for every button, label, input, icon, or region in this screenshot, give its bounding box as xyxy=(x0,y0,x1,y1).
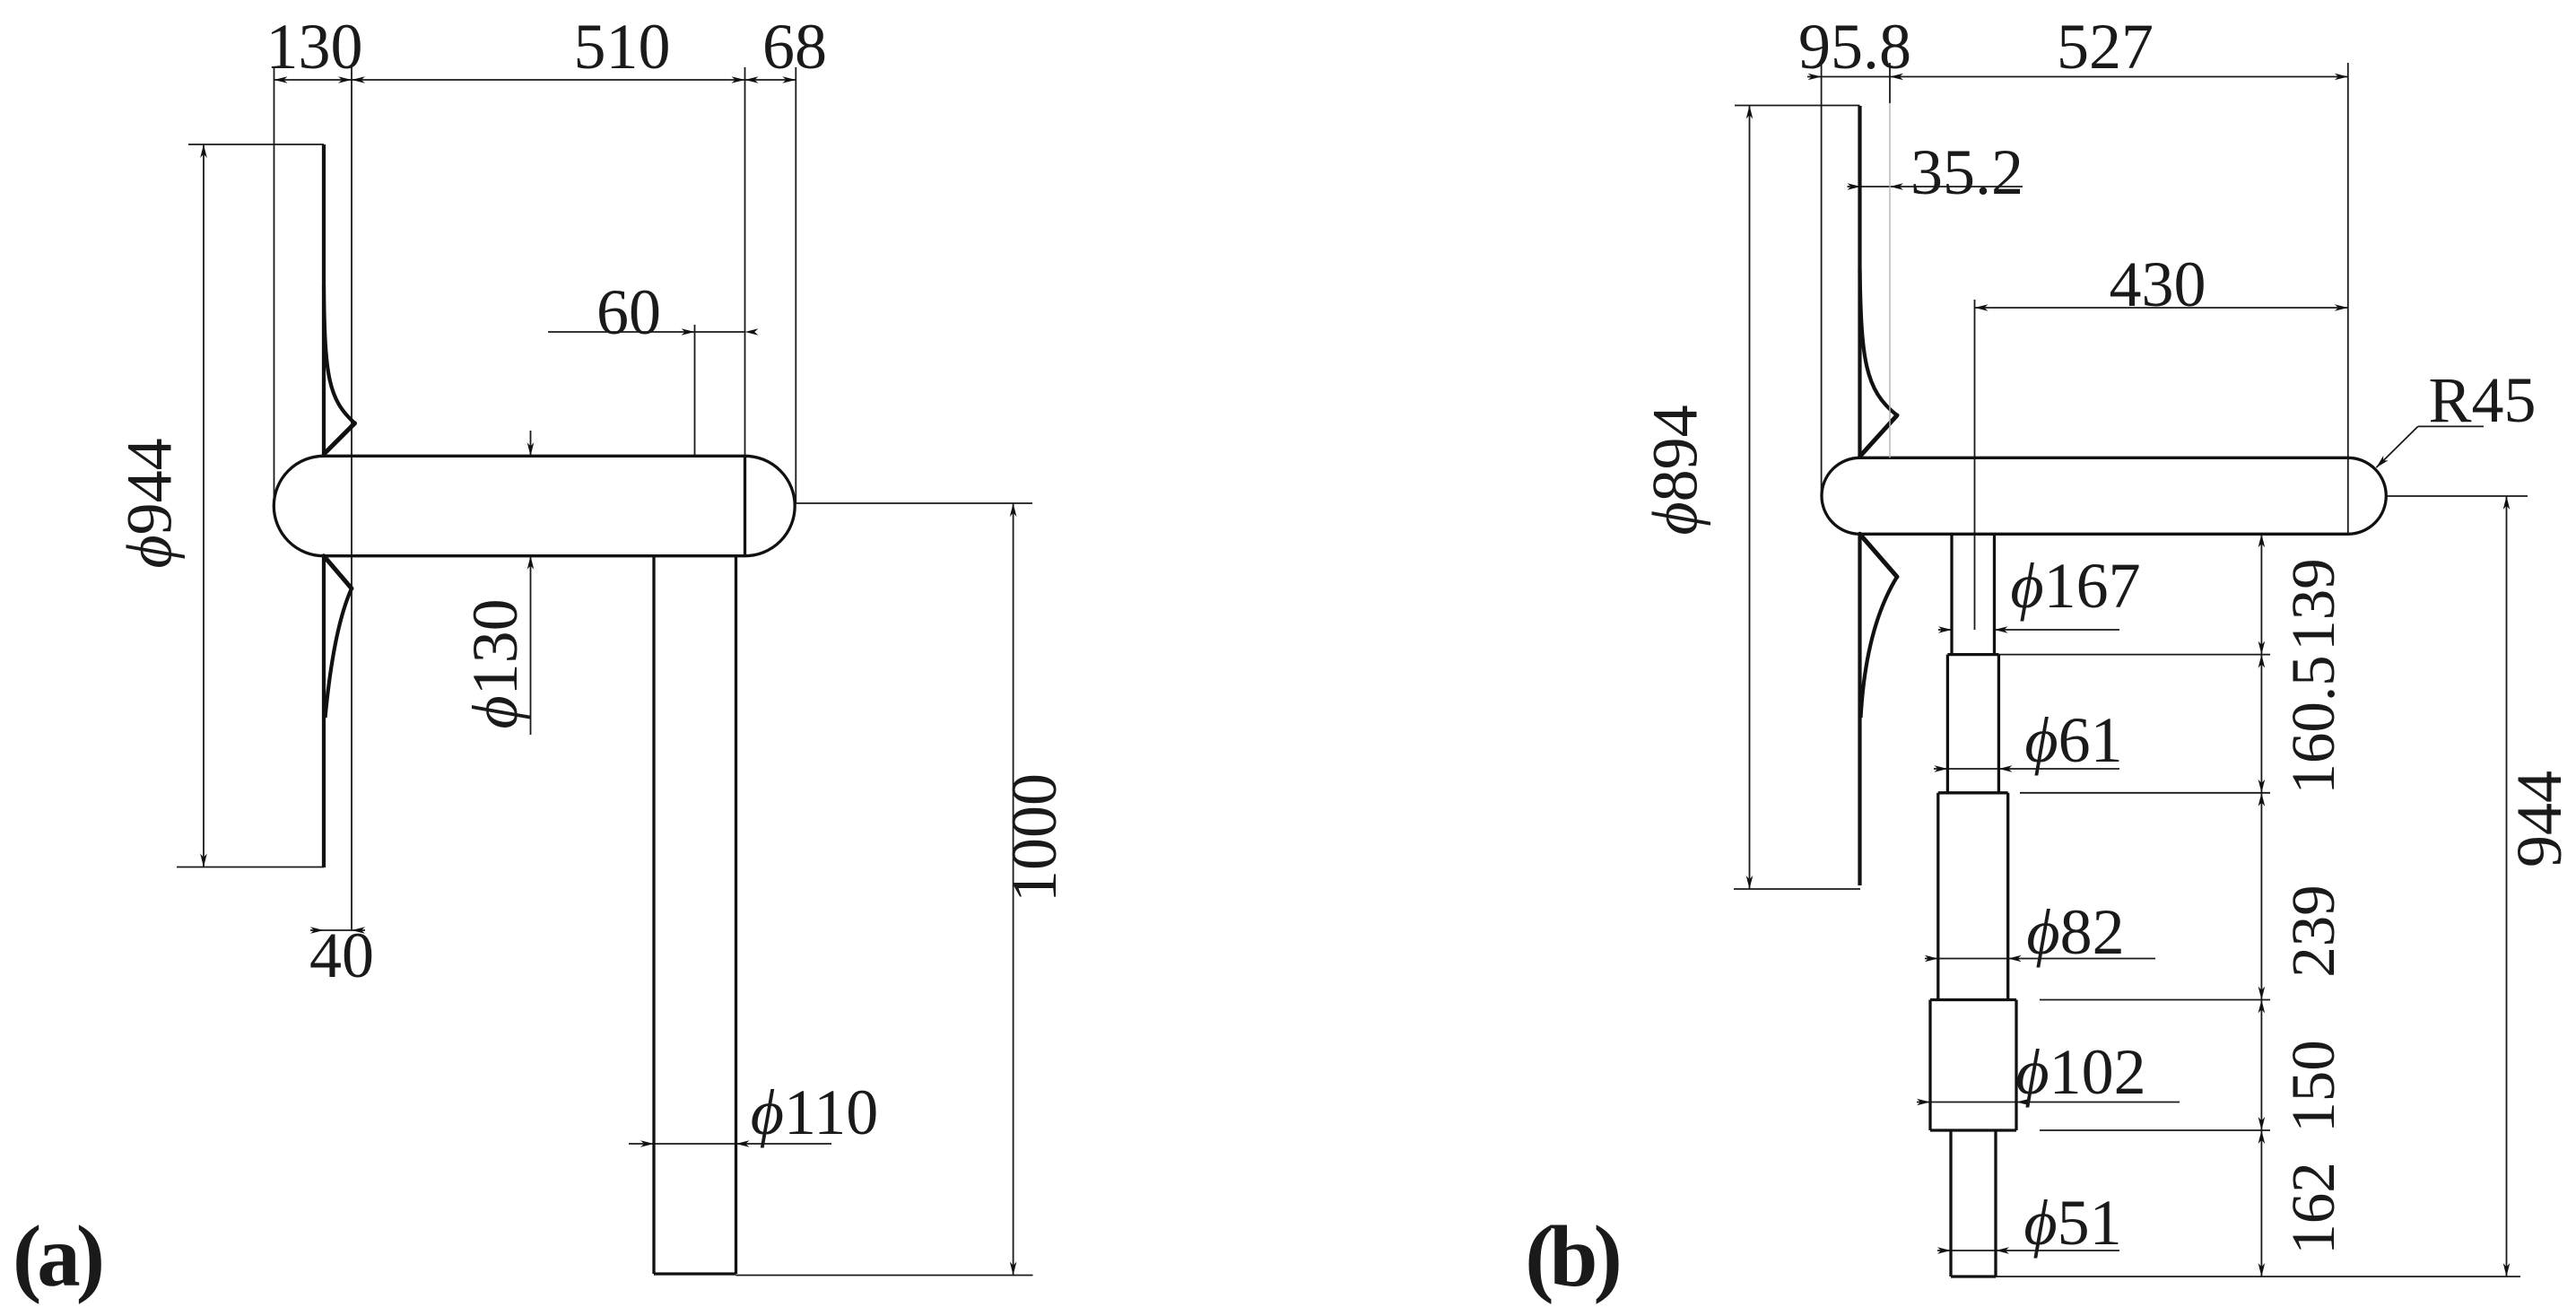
svg-text:ϕ82: ϕ82 xyxy=(2026,896,2124,968)
svg-text:(a): (a) xyxy=(13,1208,102,1304)
svg-text:139: 139 xyxy=(2279,558,2347,651)
svg-text:ϕ130: ϕ130 xyxy=(459,598,531,728)
svg-text:R45: R45 xyxy=(2428,364,2536,436)
svg-text:ϕ894: ϕ894 xyxy=(1640,405,1711,535)
svg-text:ϕ110: ϕ110 xyxy=(751,1076,879,1148)
svg-text:ϕ944: ϕ944 xyxy=(114,438,186,568)
svg-text:239: 239 xyxy=(2279,885,2347,978)
svg-text:162: 162 xyxy=(2279,1162,2347,1255)
svg-text:430: 430 xyxy=(2110,248,2206,320)
svg-text:(b): (b) xyxy=(1525,1208,1619,1304)
svg-text:ϕ51: ϕ51 xyxy=(2023,1187,2121,1259)
svg-text:68: 68 xyxy=(762,11,827,83)
svg-text:510: 510 xyxy=(574,11,671,83)
svg-text:944: 944 xyxy=(2503,771,2575,867)
svg-text:ϕ167: ϕ167 xyxy=(2010,550,2140,622)
svg-text:527: 527 xyxy=(2057,11,2154,83)
svg-text:ϕ61: ϕ61 xyxy=(2024,704,2122,776)
svg-text:60: 60 xyxy=(596,276,661,348)
svg-text:ϕ102: ϕ102 xyxy=(2015,1036,2145,1108)
svg-text:1000: 1000 xyxy=(998,773,1070,902)
svg-text:160.5: 160.5 xyxy=(2279,655,2347,794)
svg-text:95.8: 95.8 xyxy=(1798,11,1911,83)
svg-text:35.2: 35.2 xyxy=(1910,136,2023,208)
svg-text:150: 150 xyxy=(2279,1040,2347,1133)
svg-text:40: 40 xyxy=(309,919,374,991)
svg-text:130: 130 xyxy=(266,11,363,83)
